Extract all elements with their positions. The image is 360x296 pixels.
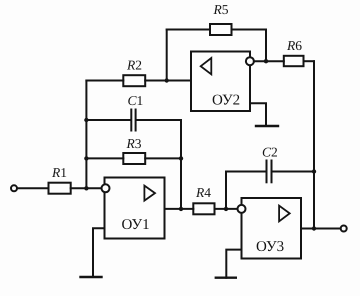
- svg-text:C1: C1: [128, 93, 144, 108]
- op-amp U1 (OU1) box: [105, 178, 165, 239]
- wire R2 to OU2: [145, 80, 191, 82]
- svg-text:ОУ1: ОУ1: [122, 217, 150, 233]
- node C2 right junction: [312, 169, 316, 173]
- wire OU3 output: [301, 228, 341, 230]
- op-amp U3 (OU3) box: [242, 198, 302, 259]
- wire R4 to OU3: [215, 208, 238, 210]
- wire R5 left leg: [166, 30, 168, 81]
- ground OU1: [93, 228, 105, 277]
- wire right rail: [313, 61, 315, 228]
- wire C1 left: [86, 119, 130, 121]
- wire C2 right: [273, 171, 315, 173]
- ground OU2: [250, 103, 266, 126]
- wire R6 right: [304, 60, 315, 62]
- resistor R3: [123, 153, 145, 164]
- svg-text:R4: R4: [195, 185, 211, 200]
- svg-text:ОУ2: ОУ2: [212, 93, 240, 109]
- resistor R2: [123, 75, 145, 86]
- capacitor C2: [266, 161, 268, 183]
- wire R3 right: [145, 157, 181, 159]
- wire R5 top left: [167, 29, 210, 31]
- resistor R5: [210, 24, 232, 35]
- OU1 triangle: [144, 186, 155, 201]
- svg-text:R3: R3: [126, 136, 142, 151]
- op-amp U2 (OU2) box: [191, 52, 250, 112]
- node output junction: [312, 226, 316, 230]
- node C1 left junction: [84, 118, 88, 122]
- OU3 inverting circle: [238, 205, 246, 213]
- node OU2 output junction: [264, 59, 268, 63]
- OU2 triangle: [201, 58, 212, 74]
- OU3 triangle: [279, 206, 290, 222]
- input terminal: [11, 185, 17, 191]
- wire C2 left leg: [225, 172, 227, 209]
- resistor R6: [284, 56, 304, 66]
- svg-text:R5: R5: [213, 2, 229, 17]
- wire R3 left: [86, 157, 123, 159]
- ground OU3: [226, 250, 241, 278]
- resistor R4: [193, 203, 214, 214]
- wire R1 to OU1 input: [71, 187, 102, 189]
- svg-text:R6: R6: [286, 38, 302, 53]
- node R3 left junction: [84, 156, 88, 160]
- wire C2 left: [226, 171, 266, 173]
- resistor R1: [49, 183, 71, 194]
- wire feedback rail: [180, 120, 182, 209]
- wire R2 left: [86, 80, 123, 82]
- svg-text:ОУ3: ОУ3: [256, 239, 284, 255]
- capacitor C1: [130, 110, 132, 131]
- wire OU1 output: [165, 208, 194, 210]
- wire OU2 circle to R6: [254, 60, 284, 62]
- output terminal: [341, 226, 347, 232]
- wire left rail vertical: [85, 81, 87, 189]
- wire R5 right leg: [265, 30, 267, 62]
- node R3 right junction: [179, 156, 183, 160]
- svg-text:R1: R1: [51, 165, 67, 180]
- svg-text:R2: R2: [126, 58, 142, 73]
- node left-rail / input junction: [84, 186, 88, 190]
- wire C1 right: [137, 119, 181, 121]
- wire input to R1: [17, 187, 48, 189]
- wire R5 top right: [232, 29, 267, 31]
- node C2 left junction: [224, 207, 228, 211]
- node R5 left junction: [165, 78, 169, 82]
- node OU1 output junction: [179, 207, 183, 211]
- OU1 inverting circle: [102, 184, 110, 192]
- svg-text:C2: C2: [262, 144, 278, 159]
- OU2 inverting circle: [246, 57, 254, 65]
